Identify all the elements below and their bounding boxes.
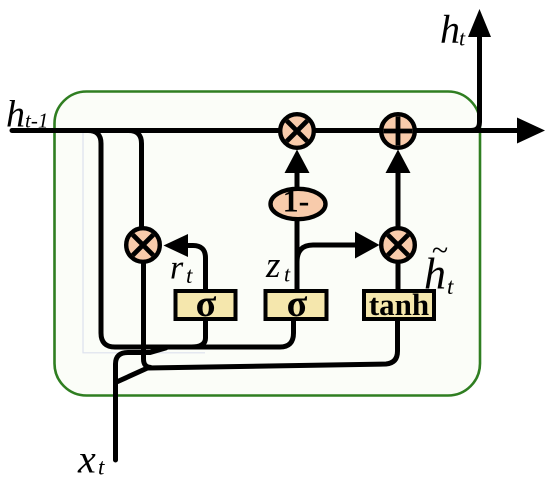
- wire: r gate output (sigma1 up, elbow left): [187, 246, 206, 292]
- svg-text:t-1: t-1: [25, 109, 48, 133]
- wire: h branch 1 (left vertical down to bottom bus, bus to sigma2): [88, 131, 294, 348]
- wire: right multiply up to plus node: [396, 172, 401, 227]
- wire: z vertical sigma2 top to 1- ellipse: [295, 221, 300, 291]
- GRU cell boundary (green rounded box): [55, 92, 481, 396]
- ghost inner rectangle (faint): [83, 131, 205, 353]
- label: r_t: [170, 250, 193, 289]
- wire: right multiply down to tanh box: [396, 262, 401, 291]
- wire: arrowhead into top multiply: [285, 150, 310, 174]
- wire: x_t vertical with elbow joining bus: [116, 348, 167, 460]
- wire: h_t arrowhead up: [468, 9, 491, 37]
- svg-text:t: t: [459, 26, 466, 51]
- node: top multiply circle: [280, 114, 314, 148]
- wire: arrowhead into plus node: [386, 150, 411, 174]
- gate: sigma2 box: [266, 283, 327, 325]
- wire: r arrowhead into left multiply: [164, 234, 189, 257]
- node: right multiply circle: [381, 228, 415, 262]
- svg-text:t: t: [284, 262, 291, 287]
- svg-text:z: z: [265, 245, 280, 286]
- svg-text:t: t: [186, 263, 193, 288]
- node: left multiply circle: [126, 228, 160, 262]
- wire: x_t diagonal branch to lower bus, lower bus to tanh: [116, 321, 398, 383]
- label: h_t: [440, 7, 466, 52]
- svg-text:h: h: [6, 94, 25, 136]
- svg-text:h: h: [424, 250, 446, 299]
- wire: h_t vertical branch up: [471, 34, 480, 131]
- node: plus circle: [381, 114, 415, 148]
- svg-text:tanh: tanh: [369, 287, 429, 322]
- wire: sigma1 input elbow from bus: [192, 321, 206, 347]
- svg-text:σ: σ: [196, 283, 217, 325]
- label: x_t: [77, 437, 105, 480]
- svg-text:t: t: [98, 455, 105, 480]
- wire: output arrow right: [517, 118, 545, 144]
- svg-text:1-: 1-: [283, 183, 310, 219]
- svg-text:x: x: [77, 437, 96, 480]
- svg-text:r: r: [170, 250, 184, 287]
- wire: z branch elbow to right multiply: [297, 245, 356, 262]
- wire: h branch 2 (down to left multiply node): [129, 131, 142, 228]
- wire: h_t-1 main horizontal line: [12, 128, 517, 133]
- gate: sigma1 box: [176, 283, 236, 325]
- wire: 1- ellipse top to top multiply: [295, 172, 300, 188]
- label: h~_t (candidate state): [424, 234, 454, 299]
- wire: left multiply output down to lower bus: [144, 262, 152, 368]
- node: 1- ellipse: [271, 183, 326, 220]
- svg-text:t: t: [447, 274, 454, 299]
- label: h_t-1: [6, 94, 48, 136]
- label: z_t: [265, 245, 291, 287]
- gate: tanh box: [364, 287, 434, 322]
- svg-text:h: h: [440, 7, 460, 52]
- svg-text:σ: σ: [287, 283, 308, 325]
- wire: z arrowhead into right multiply: [355, 232, 380, 259]
